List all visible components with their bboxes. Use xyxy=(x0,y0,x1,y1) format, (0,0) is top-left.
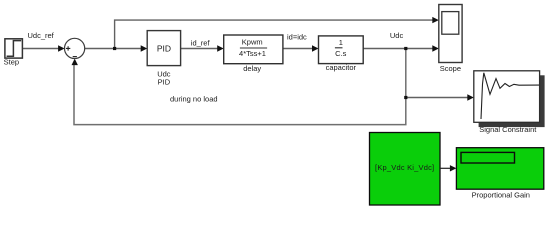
svg-text:C.s: C.s xyxy=(335,49,347,58)
svg-text:PID: PID xyxy=(158,77,171,86)
arrowhead into signal constraint xyxy=(467,94,474,100)
proportional gain block xyxy=(456,148,543,200)
svg-text:Step: Step xyxy=(4,58,19,67)
svg-text:4*Tss+1: 4*Tss+1 xyxy=(239,49,266,58)
step source block xyxy=(4,39,23,67)
arrowhead into scope input 1 xyxy=(432,17,439,23)
signal constraint block xyxy=(474,71,540,134)
wire feedback bottom xyxy=(74,49,406,125)
arrowhead into PID xyxy=(141,45,148,51)
svg-text:id_ref: id_ref xyxy=(191,38,211,47)
signal constraint block shadow xyxy=(479,75,545,127)
svg-text:Udc: Udc xyxy=(390,31,404,40)
svg-text:delay: delay xyxy=(243,64,261,73)
arrowhead into gain xyxy=(450,165,457,171)
capacitor transfer-fcn block xyxy=(319,36,364,72)
wire step to sum xyxy=(22,48,60,50)
wire top branch to scope xyxy=(115,20,434,48)
wire PID to delay xyxy=(181,48,219,50)
scope block xyxy=(439,5,462,73)
svg-text:PID: PID xyxy=(157,43,171,53)
arrowhead into sum bottom xyxy=(72,59,78,66)
svg-text:Scope: Scope xyxy=(440,64,461,73)
sum junction xyxy=(65,38,85,58)
svg-text:Kpwm: Kpwm xyxy=(242,38,263,47)
wire capacitor to scope xyxy=(363,48,433,50)
wire branch to signal constraint xyxy=(406,97,469,99)
wire sum to PID xyxy=(85,48,143,50)
arrowhead into sum left xyxy=(58,45,65,51)
svg-text:Udc_ref: Udc_ref xyxy=(28,31,55,40)
wire constant to gain xyxy=(440,167,452,169)
svg-text:id=idc: id=idc xyxy=(287,32,307,41)
svg-text:capacitor: capacitor xyxy=(326,63,357,72)
wire delay to capacitor xyxy=(283,48,314,50)
gain vector constant block xyxy=(370,133,441,206)
arrowhead into delay xyxy=(217,45,224,51)
PID controller block xyxy=(147,31,180,87)
junction after sum xyxy=(113,47,116,50)
junction feedback branch xyxy=(404,96,407,99)
junction Udc branch xyxy=(404,47,407,50)
delay transfer-fcn block xyxy=(224,35,283,73)
svg-text:Signal Constraint: Signal Constraint xyxy=(479,125,537,134)
arrowhead into scope input 2 xyxy=(432,45,439,51)
svg-text:during no load: during no load xyxy=(170,95,218,104)
svg-text:Proportional Gain: Proportional Gain xyxy=(472,191,530,200)
svg-text:1: 1 xyxy=(339,38,343,47)
svg-text:[Kp_Vdc Ki_Vdc]: [Kp_Vdc Ki_Vdc] xyxy=(375,163,434,172)
arrowhead into capacitor xyxy=(312,45,319,51)
